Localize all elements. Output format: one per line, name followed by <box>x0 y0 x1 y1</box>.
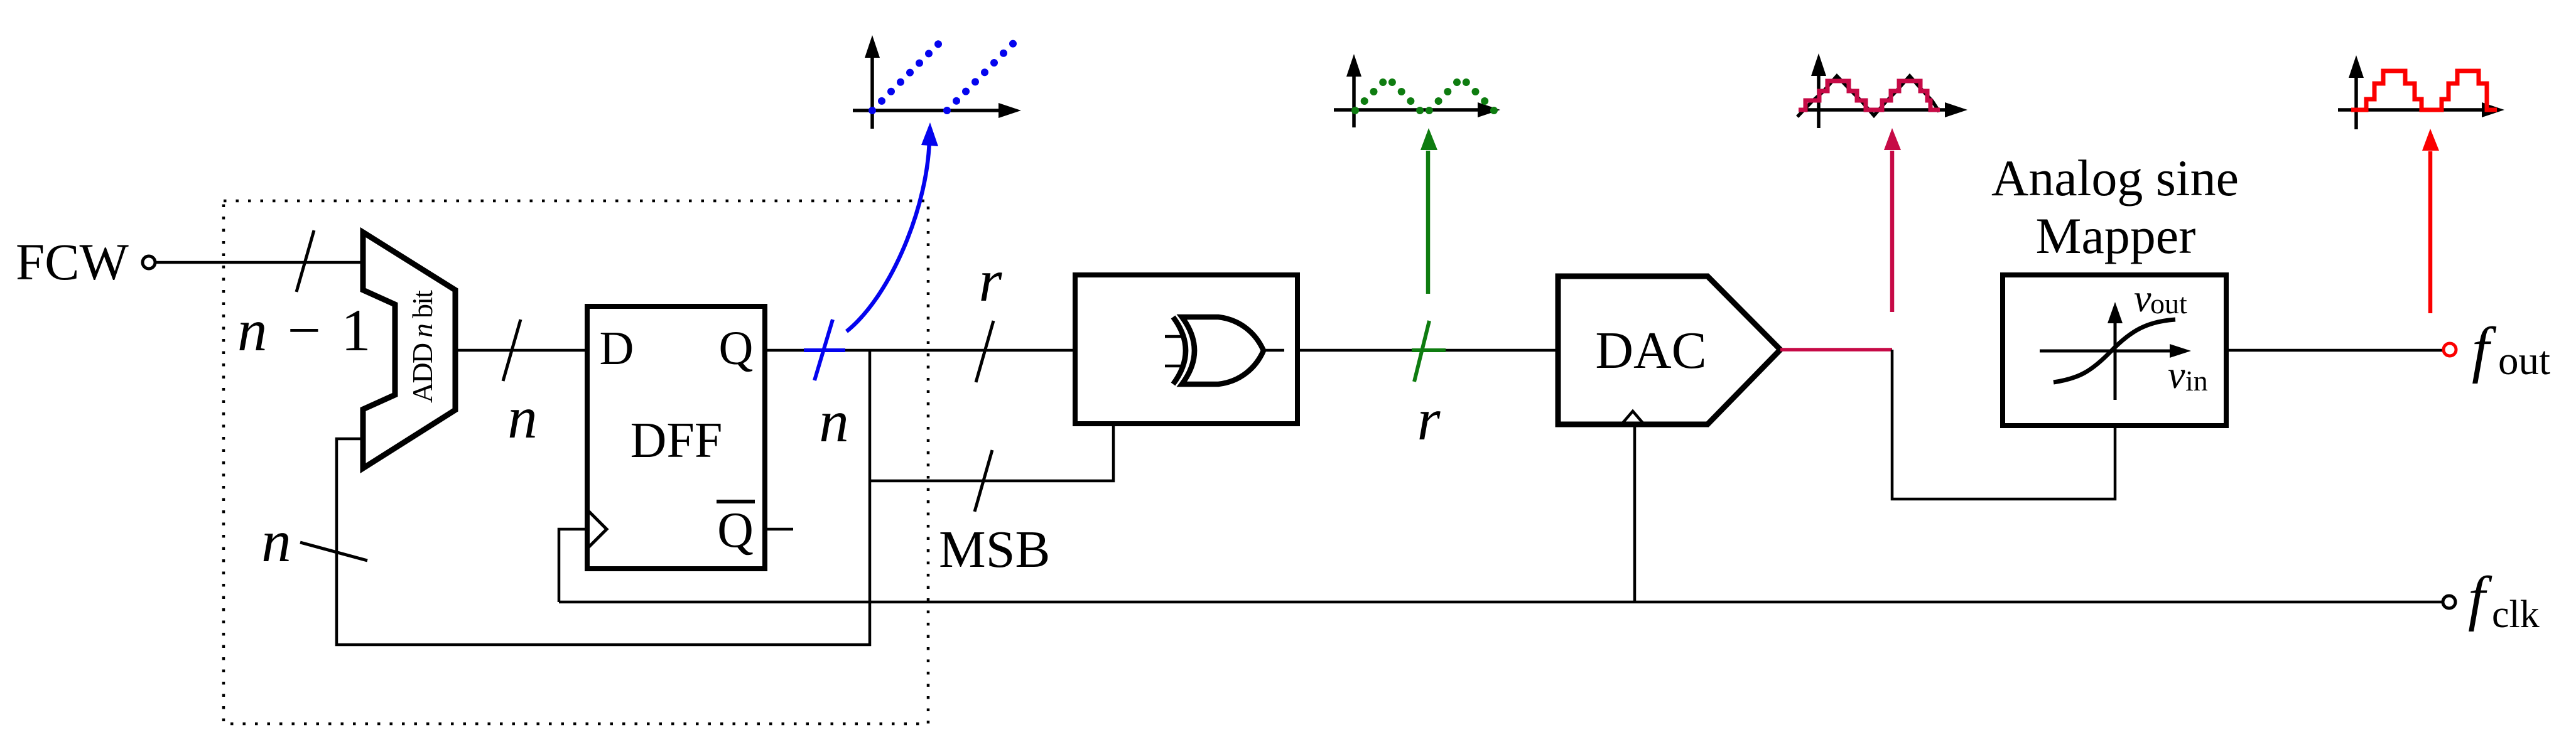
DAC <box>1558 276 1780 424</box>
mapper axes <box>2040 302 2191 400</box>
svg-text:r: r <box>979 247 1003 314</box>
feedback bus wire from node at Q output down and back to adder input <box>337 350 870 645</box>
bus slash adder output <box>503 320 521 381</box>
svg-text:Q: Q <box>719 322 754 375</box>
svg-text:DAC: DAC <box>1595 321 1706 380</box>
svg-text:DFF: DFF <box>630 413 723 468</box>
crimson arrow <box>1890 151 1895 312</box>
svg-text:Mapper: Mapper <box>2035 207 2195 264</box>
red plot <box>2338 55 2504 129</box>
svg-text:f: f <box>2472 314 2497 384</box>
svg-text:n−1: n−1 <box>237 297 371 363</box>
XOR gate <box>1165 317 1284 384</box>
svg-text:in: in <box>2185 365 2208 397</box>
crimson DAC output wire <box>1780 348 1892 352</box>
adder ADD n bit <box>363 232 455 468</box>
wire DFF Q to XOR <box>765 349 1075 352</box>
dotted accumulator box <box>224 201 928 724</box>
DAC clock triangle <box>1621 411 1644 424</box>
svg-text:D: D <box>600 322 634 375</box>
crimson plot <box>1797 53 1967 128</box>
svg-text:MSB: MSB <box>939 520 1050 579</box>
svg-text:out: out <box>2150 288 2187 320</box>
svg-text:n: n <box>507 384 538 451</box>
wire to mapper <box>1892 350 2115 499</box>
svg-text:v: v <box>2134 277 2151 320</box>
green wire segment <box>1412 348 1446 352</box>
DAC clock wire <box>1633 424 1637 602</box>
XOR box <box>1075 275 1297 424</box>
svg-text:n: n <box>819 388 849 454</box>
blue bus slash <box>814 320 833 380</box>
wire mapper to fout <box>2226 349 2442 352</box>
DFF box <box>587 306 765 569</box>
wire adder to DFF <box>455 349 587 352</box>
MSB slash <box>975 450 992 512</box>
feedback slash <box>300 542 367 561</box>
bus slash r <box>976 321 993 382</box>
sigmoid <box>2054 320 2175 382</box>
svg-text:out: out <box>2498 338 2550 384</box>
svg-text:r: r <box>1417 386 1441 453</box>
FCW input terminal <box>143 256 155 269</box>
svg-text:Analog sine: Analog sine <box>1991 149 2239 207</box>
fclk line <box>559 601 2442 604</box>
MSB tap wire to XOR bottom <box>870 426 1113 481</box>
svg-text:FCW: FCW <box>16 233 129 291</box>
wire FCW to adder <box>155 261 363 264</box>
blue phase plot <box>853 35 1021 129</box>
fout terminal <box>2443 343 2456 356</box>
green bus slash <box>1414 321 1429 382</box>
red staircase <box>2351 71 2497 110</box>
wire XOR to DAC <box>1297 349 1558 352</box>
svg-text:ADD n bit: ADD n bit <box>406 290 438 403</box>
Mapper box <box>2003 275 2226 426</box>
fclk terminal <box>2443 596 2455 608</box>
thin sine behind <box>1797 76 1939 117</box>
DFF clock triangle <box>587 510 607 549</box>
Qbar overline <box>717 500 755 503</box>
svg-text:v: v <box>2168 354 2185 397</box>
svg-text:clk: clk <box>2492 593 2540 636</box>
svg-text:f: f <box>2468 564 2492 632</box>
green arrow <box>1426 151 1431 294</box>
blue ramp dots <box>869 40 1017 114</box>
crimson staircase <box>1799 81 1940 110</box>
clock wire DFF <box>559 529 587 602</box>
blue curved arrow <box>847 137 929 331</box>
svg-text:Q: Q <box>717 503 754 558</box>
red arrow <box>2428 151 2433 313</box>
svg-text:n: n <box>261 508 291 574</box>
blue wire segment <box>804 348 845 352</box>
green plot <box>1334 54 1500 127</box>
green quantized sine dots <box>1351 78 1498 114</box>
blue arrowhead <box>921 122 938 146</box>
Qbar stub <box>767 528 793 531</box>
bus slash FCW <box>296 230 314 292</box>
